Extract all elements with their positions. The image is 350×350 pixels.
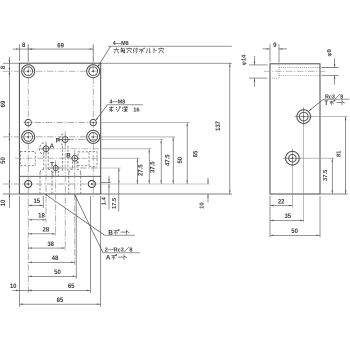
svg-text:65: 65 (194, 150, 200, 157)
dim 65 right (186, 123, 188, 184)
port P (62, 137, 68, 143)
extension chain 50 (75, 196, 77, 279)
leader to tapped hole (96, 105, 107, 120)
svg-text:2—Rc3／8: 2—Rc3／8 (105, 246, 133, 254)
dim 137 (229, 63, 231, 194)
M8 tapped hole 1 (25, 119, 31, 125)
hidden pocket right of B (78, 152, 89, 166)
dim 47.5 right (160, 140, 162, 185)
extension T row right (313, 116, 348, 118)
dim 50 bottom (28, 275, 76, 277)
hidden counterbore depth line (278, 65, 280, 78)
hidden passage near right edge (96, 151, 98, 167)
svg-text:65: 65 (68, 284, 75, 290)
svg-text:15: 15 (33, 199, 40, 205)
dim 9 side (269, 44, 271, 62)
svg-text:50: 50 (178, 156, 184, 163)
hidden channel below P (61, 146, 63, 172)
side lower hole (286, 151, 300, 165)
leader T port (309, 99, 323, 111)
port A (43, 146, 49, 152)
hidden drill tower below B (72, 161, 74, 169)
extension side left edge down (269, 196, 271, 237)
svg-text:38: 38 (47, 242, 54, 248)
dim 50 left (8, 137, 10, 184)
svg-text:22: 22 (278, 199, 285, 205)
dim 81 side (345, 117, 347, 194)
note thread underline (108, 104, 143, 106)
note B port (108, 230, 129, 237)
svg-text:A: A (106, 255, 111, 262)
centerline hole row 2 (24, 122, 98, 124)
hidden channel below T (52, 171, 54, 176)
extension top left edge up (18, 44, 20, 61)
svg-text:37.5: 37.5 (150, 161, 156, 173)
centerline port T row (47, 167, 101, 169)
svg-text:A: A (50, 143, 55, 150)
note thread depth kanji (109, 107, 127, 112)
svg-text:27.5: 27.5 (138, 164, 144, 176)
svg-text:17.5: 17.5 (112, 197, 118, 209)
centerline port P row (57, 139, 101, 141)
note A port (106, 255, 127, 262)
centerline port T column (55, 160, 57, 236)
svg-text:69: 69 (1, 100, 7, 107)
side hole left (25, 180, 32, 187)
svg-text:50: 50 (291, 229, 298, 235)
M8 tapped hole 2 (90, 119, 96, 125)
port T (53, 165, 58, 170)
counterbore bolt hole 3 (M8) (22, 130, 35, 143)
svg-text:10: 10 (1, 199, 7, 206)
svg-text:10: 10 (10, 284, 17, 290)
dim 37.5 right (148, 149, 150, 184)
note socket bolt holes kanji (114, 48, 164, 53)
dim phi9 (322, 67, 339, 69)
dim 8 left (8, 57, 10, 63)
svg-text:T: T (324, 100, 328, 107)
counterbore bolt hole 2 (M8) (87, 65, 100, 78)
extension top col1 up (27, 44, 29, 61)
hidden drill tower below A (43, 152, 45, 169)
front view body outline (19, 63, 100, 194)
leader to top-right bolt hole (98, 46, 111, 66)
dim 69 top (28, 48, 93, 50)
svg-text:81: 81 (336, 150, 342, 157)
hidden pocket around A (39, 143, 43, 155)
svg-text:137: 137 (216, 120, 222, 131)
dim 69 left (8, 63, 10, 137)
extension B row right (101, 157, 140, 159)
svg-text:T: T (50, 161, 54, 168)
extension side right edge down (319, 196, 321, 237)
extension A row right (101, 148, 152, 150)
extension top edge right (101, 62, 232, 64)
note B underline (105, 234, 135, 236)
svg-text:37.5: 37.5 (323, 169, 329, 181)
T port hole (297, 110, 311, 124)
dim 17.5 (118, 168, 120, 212)
svg-text:50: 50 (54, 270, 61, 276)
svg-text:28: 28 (43, 228, 50, 234)
svg-text:16: 16 (133, 107, 140, 113)
dim 65 bottom (28, 289, 90, 291)
dim 50 side (270, 234, 320, 236)
svg-text:φ14: φ14 (241, 54, 247, 65)
extension side-port row right (101, 183, 210, 185)
centerline port B row (15, 157, 101, 159)
extension left edge down (18, 196, 20, 307)
dim 1.4 (108, 176, 110, 183)
extension row 2 right (101, 122, 190, 124)
centerline port B column (74, 150, 76, 265)
centerline port P column (64, 131, 66, 250)
centerline bolt column 2 (92, 45, 94, 198)
extension bottom edge right (101, 193, 232, 195)
centerline port A column (45, 141, 47, 222)
note T port kanji (324, 100, 344, 107)
svg-text:50: 50 (1, 157, 7, 164)
dim 10 bottom (12, 289, 28, 291)
extension P row right (101, 139, 164, 141)
extension right edge down (100, 196, 102, 307)
extension lower row right (302, 157, 335, 159)
hidden pocket left footprint (20, 152, 35, 166)
dim 38 bottom (28, 247, 65, 249)
leader B port (45, 194, 105, 235)
svg-text:1.4: 1.4 (102, 196, 108, 205)
svg-text:10: 10 (199, 202, 205, 208)
extension side bottom right (320, 193, 348, 195)
leader A port (75, 195, 103, 253)
dim 28 bottom (28, 233, 56, 235)
front view step line (19, 175, 100, 177)
centerline T column down (303, 126, 305, 223)
extension T row right (101, 167, 121, 169)
dim 35 side (270, 219, 304, 221)
side hole right (88, 180, 95, 187)
dim phi14 (249, 64, 268, 66)
counterbore bolt hole 4 (M8) (87, 130, 100, 143)
extension bottom edge left (3, 193, 19, 195)
svg-text:47.5: 47.5 (165, 154, 171, 166)
centerline hole row 3 (3, 136, 98, 138)
centerline side hole row1 (264, 70, 327, 72)
side view body outline (270, 64, 320, 194)
note underline long (108, 45, 232, 47)
extension chain 15 (42, 196, 44, 208)
svg-text:85: 85 (57, 298, 64, 304)
centerline port A row (38, 148, 101, 150)
dim 22 side (270, 205, 292, 207)
extension row 3 right (101, 136, 176, 138)
dim 50 right (172, 137, 174, 184)
counterbore bolt hole 1 (M8) (22, 65, 35, 78)
dim 27.5 right (136, 158, 138, 184)
extension top edge left (3, 62, 19, 64)
svg-text:18: 18 (38, 214, 45, 220)
extension chain 65 (89, 196, 91, 293)
dim 15 bottom (28, 204, 43, 206)
dim 10 left (8, 184, 10, 208)
dim 85 bottom (19, 303, 100, 305)
dim 48 bottom (28, 261, 75, 263)
svg-text:φ9: φ9 (327, 48, 333, 56)
hidden pocket around P (59, 134, 63, 145)
centerline side-port row (3, 183, 101, 185)
extension 1.4 feature (101, 182, 111, 184)
dim 8 top (13, 48, 36, 50)
centerline lower hole column down (291, 167, 293, 207)
centerline hole row 1 (3, 70, 101, 72)
port B (72, 155, 78, 161)
svg-text:35: 35 (284, 214, 291, 220)
dim 37.5 side (331, 158, 333, 194)
dim 10 right (207, 178, 209, 184)
hidden through hole lines (279, 67, 320, 69)
note T underline (323, 98, 349, 100)
svg-text:B: B (66, 153, 71, 160)
note A underline (103, 252, 140, 254)
svg-text:48: 48 (52, 256, 59, 262)
centerline bolt column 1 (27, 45, 29, 294)
extension top col2 up (92, 44, 94, 61)
svg-text:69: 69 (57, 43, 64, 49)
dim 18 bottom (28, 219, 46, 221)
